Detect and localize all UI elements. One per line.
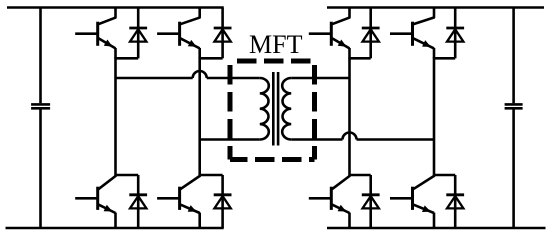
- wire collector Q8 to diode D8: [434, 174, 455, 177]
- wire hop to primary winding: [207, 77, 260, 80]
- wire collector Q6 to diode D6: [350, 174, 371, 177]
- wire leg B midpoint: [198, 57, 201, 176]
- MFT dashed boundary right edge: [312, 65, 317, 160]
- wire collector Q4 to diode D4: [200, 174, 223, 177]
- wire collector Q2 to diode D2: [116, 174, 139, 177]
- wire emitter Q7 to diode D7: [434, 57, 455, 60]
- diode D3 (antiparallel with Q3): [221, 8, 224, 59]
- capacitor C1 lead top: [39, 8, 42, 104]
- diode D7 (antiparallel with Q7): [454, 8, 457, 59]
- diode D5 (antiparallel with Q5): [369, 8, 372, 59]
- transistor Q5 (upper leg C): [348, 8, 351, 18]
- transistor Q4 (lower leg B): [180, 176, 200, 190]
- wire leg A midpoint to transformer primary (top): [116, 77, 193, 80]
- diode D2 (antiparallel with Q2): [137, 175, 140, 228]
- wire transformer secondary (top) to leg C midpoint: [291, 77, 349, 80]
- capacitor C2 lead top: [512, 8, 515, 104]
- diode D8 (antiparallel with Q8): [454, 175, 457, 228]
- wire transformer secondary (bottom) start: [291, 138, 342, 141]
- diode D4 (antiparallel with Q4): [221, 175, 224, 228]
- transformer core: [272, 72, 275, 146]
- wire emitter Q5 to diode D5: [350, 57, 371, 60]
- wire leg D midpoint: [433, 57, 436, 176]
- capacitor C1 lead bottom: [39, 110, 42, 229]
- transistor Q8 (lower leg D): [413, 176, 435, 190]
- wire emitter Q3 to diode D3: [200, 57, 223, 60]
- capacitor C2 plates: [505, 103, 523, 106]
- capacitor C2 lead bottom: [512, 110, 515, 229]
- wire top DC rail (right bridge): [327, 6, 544, 9]
- wire leg A midpoint: [114, 57, 117, 176]
- transistor Q3 (upper leg B): [198, 8, 201, 18]
- transistor Q2 (lower leg A): [98, 176, 116, 190]
- wire crossover hop over leg C: [343, 133, 357, 140]
- svg-text:MFT: MFT: [249, 30, 303, 59]
- diode D6 (antiparallel with Q6): [369, 175, 372, 228]
- wire leg C midpoint: [348, 57, 351, 176]
- MFT dashed boundary bottom edge: [230, 157, 315, 162]
- wire bottom DC rail (right bridge): [327, 227, 546, 230]
- inductor L1 transformer primary winding: [260, 78, 269, 140]
- label MFT: [249, 30, 303, 59]
- transistor Q7 (upper leg D): [433, 8, 436, 18]
- capacitor C1 plates: [31, 103, 50, 106]
- transistor Q1 (upper leg A): [114, 8, 117, 18]
- wire emitter Q1 to diode D1: [116, 57, 139, 60]
- wire bottom DC rail (left bridge): [6, 227, 224, 230]
- MFT dashed boundary top edge: [237, 59, 311, 64]
- wire top DC rail (left bridge): [7, 6, 224, 9]
- wire leg B midpoint to transformer primary (bottom): [200, 138, 260, 141]
- MFT dashed boundary left edge: [228, 65, 233, 160]
- transistor Q6 (lower leg C): [332, 176, 350, 190]
- diode D1 (antiparallel with Q1): [137, 8, 140, 59]
- wire hop to leg D midpoint: [357, 138, 435, 141]
- wire crossover hop over leg B: [193, 71, 207, 78]
- inductor L2 transformer secondary winding: [282, 78, 291, 140]
